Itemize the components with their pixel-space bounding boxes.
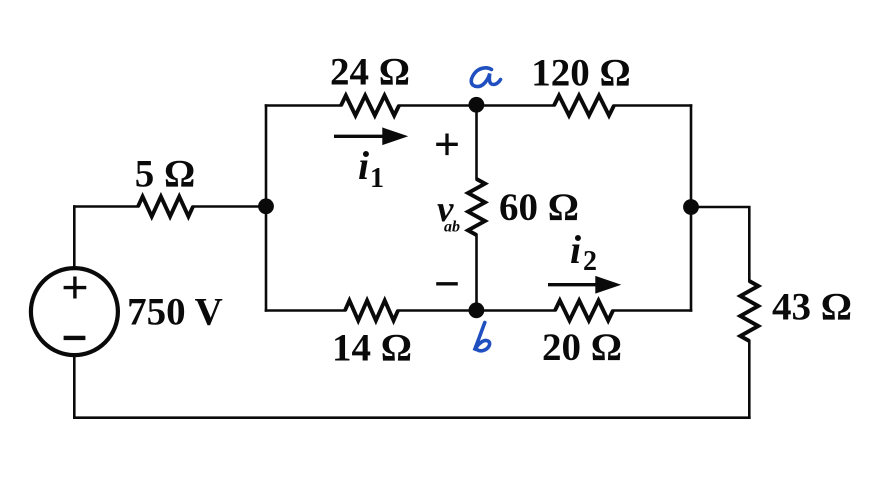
node: junction dot right vertical <box>683 199 699 215</box>
wire: top rail left of 24-ohm <box>266 104 341 107</box>
current arrow i1 <box>334 130 403 143</box>
wire: right outer vertical above 43-ohm into right node <box>691 207 749 281</box>
svg-text:5 Ω: 5 Ω <box>135 153 195 196</box>
wire: bottom rail between 14-ohm and 20-ohm <box>398 309 555 312</box>
resistor R 60 ohm <box>468 179 485 235</box>
svg-text:43 Ω: 43 Ω <box>772 286 852 329</box>
wire: center vertical below 60-ohm <box>475 235 478 311</box>
current arrow i2 <box>548 278 616 291</box>
annotation: handwritten blue node label a <box>471 68 500 87</box>
resistor R 24 ohm <box>341 96 399 116</box>
wire: source bottom lead <box>73 356 76 418</box>
svg-text:ab: ab <box>444 219 460 236</box>
minus sign of v_ab polarity <box>436 282 458 285</box>
node: junction dot left (5-ohm to left vertical) <box>258 198 274 214</box>
plus sign of v_ab polarity <box>436 134 458 156</box>
wire: source top lead <box>73 207 76 269</box>
annotation: handwritten blue node label b <box>474 323 489 351</box>
svg-text:i: i <box>570 227 581 272</box>
resistor R 43 ohm <box>740 281 758 341</box>
svg-text:14 Ω: 14 Ω <box>332 327 412 370</box>
wire: bottom rail right of 20-ohm <box>613 309 691 312</box>
voltage source minus terminal <box>64 336 86 340</box>
svg-text:2: 2 <box>583 246 597 277</box>
wire: bottom rail left of 14-ohm <box>266 309 345 312</box>
svg-text:750 V: 750 V <box>127 291 223 334</box>
svg-text:1: 1 <box>370 163 384 194</box>
node b: junction dot <box>469 302 485 318</box>
voltage source plus terminal <box>64 277 87 299</box>
resistor R 5 ohm <box>138 197 193 217</box>
svg-text:60 Ω: 60 Ω <box>499 186 579 229</box>
svg-text:20 Ω: 20 Ω <box>542 326 622 369</box>
wire: top rail between 24-ohm and 120-ohm <box>399 104 554 107</box>
wire: top rail right of 120-ohm <box>614 104 691 107</box>
wire: middle loop left vertical <box>265 106 268 311</box>
wire: right inner vertical <box>690 106 693 311</box>
wire: bottom rail <box>74 416 749 419</box>
voltage source V1 750 V circle <box>31 268 118 355</box>
svg-text:120 Ω: 120 Ω <box>531 52 630 95</box>
wire: right outer vertical below 43-ohm <box>748 341 751 418</box>
svg-text:i: i <box>358 143 369 188</box>
wire: 5-ohm branch right segment to node <box>193 205 266 208</box>
resistor R 14 ohm <box>345 301 398 321</box>
resistor R 20 ohm <box>555 301 613 321</box>
svg-text:24 Ω: 24 Ω <box>330 51 410 94</box>
node a: junction dot <box>469 97 485 113</box>
wire: 5-ohm branch left segment <box>74 205 138 208</box>
wire: center vertical above 60-ohm <box>475 106 478 180</box>
resistor R 120 ohm <box>554 96 614 116</box>
